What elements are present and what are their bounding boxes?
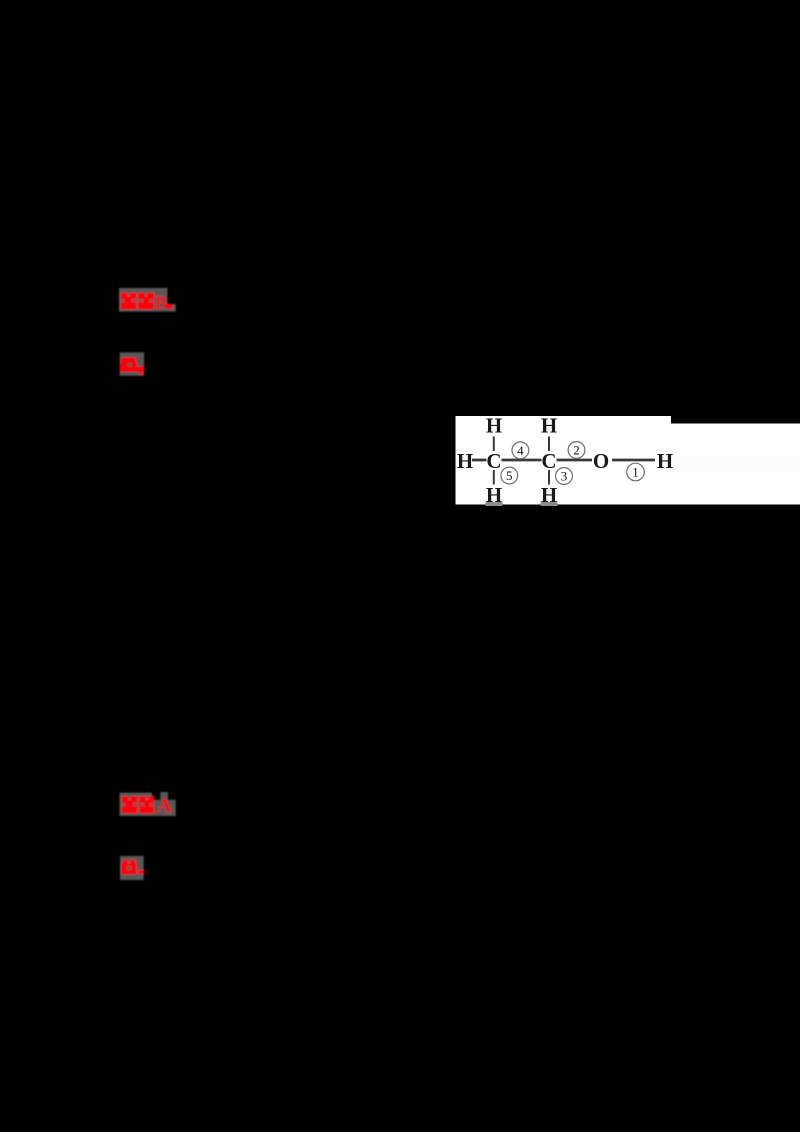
svg-text:A: A: [157, 794, 173, 818]
svg-text:4: 4: [517, 443, 524, 458]
svg-text:H: H: [657, 449, 673, 473]
svg-text:1: 1: [632, 465, 639, 480]
svg-text:B: B: [155, 293, 168, 314]
svg-text:2: 2: [573, 443, 580, 458]
svg-text:3: 3: [561, 469, 568, 484]
svg-text:C: C: [541, 449, 556, 473]
svg-text:O: O: [593, 449, 609, 473]
svg-text:C: C: [486, 449, 501, 473]
svg-text:H: H: [541, 414, 557, 438]
svg-text:5: 5: [506, 468, 513, 483]
svg-text:H: H: [486, 483, 502, 507]
svg-text:H: H: [457, 449, 473, 473]
svg-text:H: H: [541, 483, 557, 507]
svg-text:H: H: [486, 414, 502, 438]
